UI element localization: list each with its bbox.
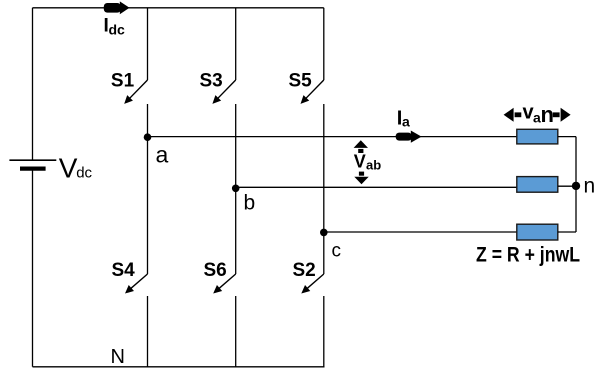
svg-text:S1: S1 — [111, 71, 135, 92]
svg-text:S6: S6 — [204, 260, 227, 281]
svg-text:Z = R + jnwL: Z = R + jnwL — [476, 244, 580, 267]
svg-text:S4: S4 — [112, 260, 136, 281]
switch S1 — [129, 80, 148, 99]
voltage arrow van left — [504, 108, 514, 122]
wire phase b to neutral bus — [558, 185, 576, 187]
node b junction dot — [232, 185, 240, 193]
svg-text:N: N — [111, 346, 125, 368]
svg-text:b: b — [244, 191, 256, 214]
wire leg a upper segment — [147, 8, 149, 80]
svg-text:ab: ab — [366, 158, 381, 173]
switch S3 — [217, 80, 236, 99]
wire top dc rail — [33, 7, 324, 9]
switch S2 — [306, 274, 324, 289]
svg-text:n: n — [584, 174, 596, 197]
switch S4 — [130, 274, 148, 289]
wire leg b upper segment — [235, 8, 237, 80]
wire bottom dc rail — [33, 366, 325, 368]
wire leg b middle segment — [235, 104, 237, 274]
load resistor phase b — [517, 177, 558, 193]
svg-text:S2: S2 — [293, 260, 316, 281]
wire phase a line — [148, 136, 517, 138]
wire phase c to neutral bus — [558, 231, 576, 233]
wire left dc bus lower — [32, 169, 34, 367]
wire phase c line — [324, 231, 517, 233]
svg-text:V: V — [354, 152, 366, 172]
svg-text:n: n — [541, 102, 554, 127]
load resistor phase a — [517, 129, 558, 144]
current arrow Idc — [104, 3, 121, 13]
svg-text:dc: dc — [109, 22, 126, 38]
node a junction dot — [144, 133, 152, 141]
wire leg b lower segment — [235, 296, 237, 367]
wire phase b line — [236, 186, 517, 188]
svg-text:c: c — [332, 241, 342, 262]
switch S6 — [218, 274, 236, 289]
svg-text:S3: S3 — [200, 71, 223, 92]
load resistor phase c — [517, 224, 558, 240]
svg-text:a: a — [156, 142, 169, 168]
voltage arrow van right — [561, 108, 571, 122]
wire left dc bus upper — [32, 8, 34, 160]
wire leg c lower segment — [323, 296, 325, 367]
switch S5 — [305, 80, 324, 99]
wire leg c upper segment — [323, 8, 325, 80]
battery Vdc negative plate — [20, 167, 46, 171]
voltage arrow Vab down — [354, 177, 368, 185]
current arrow Ia — [396, 133, 412, 141]
wire phase a to neutral bus — [558, 136, 576, 138]
node n junction dot — [572, 182, 580, 190]
voltage arrow Vab up — [354, 140, 368, 148]
wire leg a lower segment — [147, 296, 149, 367]
svg-text:S5: S5 — [289, 71, 313, 92]
wire leg a middle segment — [147, 104, 149, 274]
svg-text:a: a — [402, 114, 410, 130]
node c junction dot — [320, 229, 328, 237]
wire leg c middle segment — [323, 104, 325, 274]
svg-text:dc: dc — [76, 164, 92, 181]
svg-text:V: V — [59, 153, 78, 184]
battery Vdc positive plate — [9, 159, 56, 161]
wire neutral bus vertical — [575, 137, 577, 232]
